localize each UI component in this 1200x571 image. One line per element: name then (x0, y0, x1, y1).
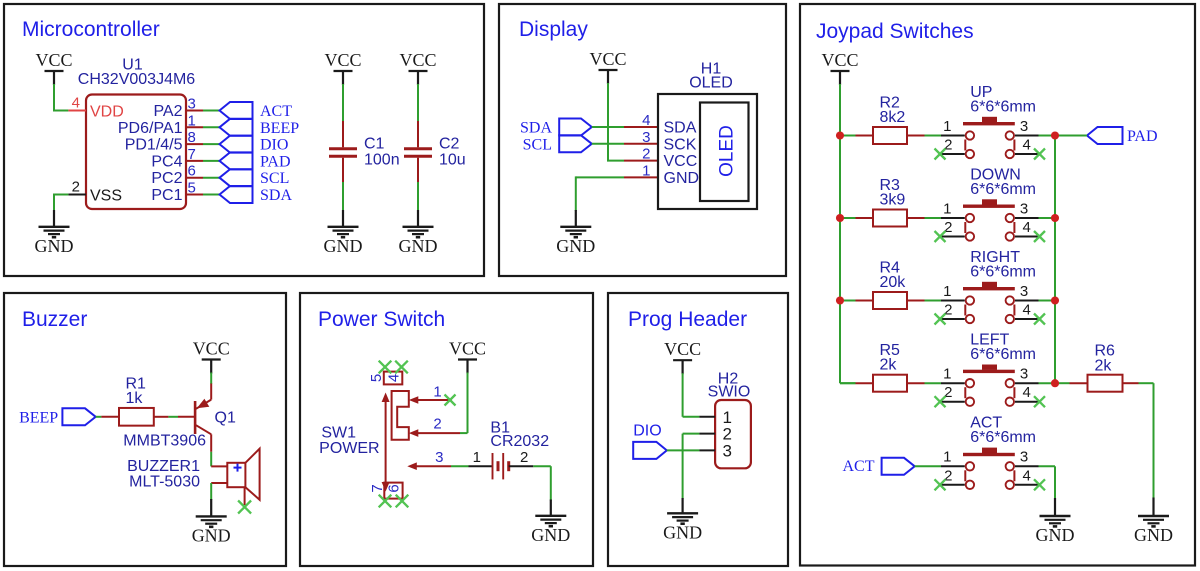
U1 pin name PD6/PA1 (118, 120, 183, 137)
no-connect X LEFT pin 4 (1034, 396, 1045, 407)
switch RIGHT pin 2 stub (941, 318, 965, 320)
svg-text:VCC: VCC (449, 339, 486, 359)
no-connect X RIGHT pin 4 (1034, 314, 1045, 325)
title Power Switch (318, 308, 445, 331)
R4 reference (880, 260, 901, 277)
no-connect X ACT pin 2 (935, 479, 946, 490)
SW1 actuator double arrow (382, 393, 390, 492)
svg-text:PAD: PAD (1127, 128, 1158, 145)
frame Power Switch section (300, 293, 593, 566)
wire Q1 collector to buzzer (210, 452, 212, 467)
switch UP pin number 2 (944, 137, 952, 154)
svg-text:8: 8 (188, 129, 196, 146)
ground GND (C1) (324, 210, 363, 256)
wire to hierarchical label ACT (203, 110, 220, 112)
svg-text:2: 2 (642, 146, 650, 163)
ground GND (buzzer) (192, 499, 231, 546)
svg-text:2: 2 (944, 467, 952, 484)
svg-text:1: 1 (943, 118, 951, 135)
capacitor C2 reference (439, 136, 460, 153)
svg-text:2: 2 (944, 137, 952, 154)
U1 pin name PC1 (151, 187, 182, 204)
svg-text:ACT: ACT (260, 103, 292, 120)
buzzer BUZZER1 MLT-5030 body (227, 449, 259, 505)
svg-text:ACT: ACT (843, 458, 875, 475)
svg-text:VCC: VCC (324, 50, 361, 70)
power symbol VCC (C1) (324, 50, 361, 85)
title Microcontroller (22, 18, 160, 41)
wire bus to R4 (840, 300, 856, 302)
no-connect X DOWN pin 4 (1034, 231, 1045, 242)
svg-text:SCK: SCK (664, 136, 697, 153)
resistor R6 left pin (1070, 382, 1088, 384)
node PAD hierarchical label (1087, 127, 1158, 145)
wire R5 to button LEFT (925, 382, 942, 384)
no-connect X SW1 pin 6 (396, 495, 409, 508)
switch UP pin 2 stub (941, 153, 965, 155)
resistor R1 (119, 408, 154, 426)
node DIO hierarchical label (633, 423, 667, 459)
H1 pin name VCC (664, 153, 698, 170)
svg-text:4: 4 (72, 95, 80, 112)
H1 pin number 2 (642, 146, 650, 163)
switch DOWN pin 1 stub (941, 217, 965, 219)
svg-text:GND: GND (35, 236, 74, 256)
pushbutton RIGHT body (963, 282, 1015, 323)
U1 right pin 8 (PD1/4/5) stub (186, 143, 203, 145)
svg-text:4: 4 (1023, 384, 1031, 401)
node ACT hierarchical label (220, 102, 293, 120)
junction dot at (1055,135.5) (1051, 131, 1059, 139)
R2 value 8k2 (880, 109, 906, 126)
H1 pin 4 stub (624, 126, 658, 128)
switch LEFT pin number 2 (944, 384, 952, 401)
svg-text:4: 4 (1023, 302, 1031, 319)
switch DOWN pin 4 stub (1015, 236, 1039, 238)
junction dot at (1055,218.0) (1051, 214, 1059, 222)
wire right bus to R6 (1055, 382, 1070, 384)
svg-text:2: 2 (520, 449, 528, 466)
resistor R1 left pin (101, 416, 119, 418)
wire SDA to H1 (592, 126, 624, 128)
H2 pin number 3 (723, 441, 732, 460)
svg-text:10u: 10u (439, 152, 466, 169)
svg-text:2: 2 (944, 302, 952, 319)
resistor R2 right pin (907, 135, 925, 137)
svg-text:4: 4 (1023, 137, 1031, 154)
svg-text:4: 4 (642, 112, 650, 129)
wire VCC to U1 VDD (53, 84, 68, 111)
svg-text:VCC: VCC (193, 339, 230, 359)
svg-text:20k: 20k (880, 274, 907, 291)
node DIO hierarchical label (220, 136, 289, 154)
svg-text:PAD: PAD (260, 153, 291, 170)
svg-text:6: 6 (188, 163, 196, 180)
no-connect X SW1 pin 5 (379, 361, 392, 374)
svg-text:Q1: Q1 (215, 410, 236, 427)
capacitor C1 bottom pin (342, 158, 344, 182)
title Buzzer (22, 308, 87, 331)
switch RIGHT pin 3 stub (1015, 300, 1039, 302)
SW1 reference (321, 425, 356, 442)
svg-text:PC4: PC4 (151, 153, 182, 170)
pushbutton DOWN body (963, 199, 1015, 240)
switch LEFT pin 3 stub (1015, 382, 1039, 384)
R5 value 2k (880, 357, 898, 374)
H1 pin 3 stub (624, 143, 658, 145)
svg-text:SDA: SDA (520, 120, 552, 137)
svg-text:3: 3 (435, 449, 443, 466)
wire U1 VSS to GND (53, 195, 68, 212)
ACT value 6*6*6mm (970, 429, 1036, 446)
frame Display section (499, 4, 786, 276)
svg-text:DIO: DIO (633, 423, 661, 440)
R4 value 20k (880, 274, 907, 291)
wire buzzer pin 2 to GND (210, 483, 212, 500)
battery B1 pin 2 stub (509, 465, 534, 467)
switch SW1 body bracket (392, 391, 409, 440)
resistor R1 right pin (154, 416, 169, 418)
U1 pin number 8 (188, 129, 196, 146)
DOWN value 6*6*6mm (970, 181, 1036, 198)
LEFT name label (970, 332, 1009, 349)
ground GND (R6) (1134, 498, 1173, 546)
switch ACT pin 4 stub (1015, 484, 1039, 486)
frame Prog Header section (608, 293, 788, 566)
ground GND (ACT) (1036, 498, 1075, 545)
H1 pin 2 stub (624, 160, 658, 162)
svg-text:2k: 2k (880, 357, 898, 374)
U1 pin name PD1/4/5 (125, 137, 183, 154)
resistor R6 right pin (1123, 382, 1139, 384)
SW1 pin 2 arrow (409, 429, 460, 437)
svg-text:GND: GND (1134, 525, 1173, 545)
power symbol VCC (power switch) (449, 339, 486, 374)
switch ACT pin 3 stub (1015, 465, 1039, 467)
OLED rotated label (717, 125, 738, 177)
switch UP pin 4 stub (1015, 153, 1039, 155)
switch DOWN pin number 2 (944, 219, 952, 236)
U1 pin number 7 (188, 146, 196, 163)
U1 pin number 3 (188, 96, 196, 113)
resistor R3 (873, 210, 907, 227)
svg-text:BUZZER1: BUZZER1 (127, 458, 200, 475)
title Joypad Switches (816, 20, 974, 43)
wire C1 to GND (342, 182, 344, 211)
svg-text:1k: 1k (126, 390, 144, 407)
svg-text:3: 3 (723, 441, 732, 460)
wire button UP to right bus (1039, 135, 1057, 137)
switch UP pin number 4 (1023, 137, 1031, 154)
U1 pin number 6 (188, 163, 196, 180)
wire R4 to button RIGHT (925, 300, 942, 302)
H1 pin number 4 (642, 112, 650, 129)
node SDA hierarchical label (220, 186, 293, 204)
svg-text:2: 2 (72, 179, 80, 196)
wire right bus to PAD (1055, 135, 1087, 137)
svg-text:MMBT3906: MMBT3906 (123, 433, 206, 450)
svg-text:4: 4 (1023, 219, 1031, 236)
wire VCC to C1 (342, 84, 344, 121)
H1 pin number 3 (642, 129, 650, 146)
RIGHT value 6*6*6mm (970, 263, 1036, 280)
B1 value CR2032 (490, 433, 549, 450)
svg-text:PC2: PC2 (151, 170, 182, 187)
svg-text:GND: GND (531, 525, 570, 545)
wire BEEP to R1 (96, 416, 102, 418)
node SCL hierarchical label (523, 135, 592, 153)
wire bus to R2 (840, 135, 856, 137)
pushbutton LEFT body (963, 365, 1015, 406)
battery B1 pin number 1 (473, 449, 481, 466)
U1 pin number 1 (188, 112, 196, 129)
svg-text:2k: 2k (1095, 358, 1113, 375)
svg-text:PC1: PC1 (151, 187, 182, 204)
buzzer BUZZER1 pin 2 stub (211, 482, 227, 484)
wire VCC to H1 pin 2 (607, 160, 624, 162)
wire button RIGHT to right bus (1039, 300, 1057, 302)
Q1 reference (215, 410, 236, 427)
switch RIGHT pin number 3 (1020, 283, 1028, 300)
BUZZER1 reference (127, 458, 200, 475)
svg-text:3: 3 (1020, 366, 1028, 383)
buzzer BUZZER1 pin 1 stub (211, 465, 227, 467)
no-connect X SW1 pin 7 (379, 495, 392, 508)
battery B1 pin 1 stub (469, 465, 493, 467)
SW1 pin number 2 (433, 416, 441, 433)
frame Microcontroller section (4, 4, 484, 276)
U1 pin number 5 (188, 180, 196, 197)
svg-text:GND: GND (663, 523, 702, 543)
switch LEFT pin number 3 (1020, 366, 1028, 383)
H1 pin number 1 (642, 162, 650, 179)
U1 pin 4 number (72, 95, 80, 112)
U1 pin name PC2 (151, 170, 182, 187)
H2 pin 2 stub (699, 433, 715, 435)
svg-text:1: 1 (943, 449, 951, 466)
wire bus to R3 (840, 217, 856, 219)
svg-text:MLT-5030: MLT-5030 (129, 474, 200, 491)
resistor R6 (1088, 375, 1123, 392)
U1 right pin 3 (PA2) stub (186, 110, 203, 112)
no-connect X SW1 pin 4 (395, 361, 408, 374)
battery B1 pin number 2 (520, 449, 528, 466)
svg-text:GND: GND (399, 236, 438, 256)
H2 reference (718, 371, 739, 388)
capacitor C1 value 100n (364, 152, 400, 169)
svg-text:2: 2 (944, 219, 952, 236)
UP value 6*6*6mm (970, 98, 1036, 115)
wire VCC vertical (display) (607, 83, 609, 161)
svg-text:Prog Header: Prog Header (628, 308, 747, 331)
svg-text:6*6*6mm: 6*6*6mm (970, 429, 1036, 446)
switch DOWN pin 2 stub (941, 236, 965, 238)
U1 reference (122, 57, 143, 74)
capacitor C2 plates (404, 149, 432, 156)
resistor R4 right pin (907, 300, 925, 302)
U1 pin name PA2 (153, 103, 182, 120)
svg-text:7: 7 (188, 146, 196, 163)
wire ACT button pin 3 to GND (1039, 466, 1056, 499)
svg-text:VCC: VCC (821, 50, 858, 70)
U1 right pin 1 (PD6/PA1) stub (186, 126, 203, 128)
H2 pin 1 stub (699, 416, 715, 418)
resistor R4 left pin (856, 300, 874, 302)
ACT name label (970, 415, 1002, 432)
H1 pin name SCK (664, 136, 697, 153)
connector H1 OLED outline (658, 94, 757, 209)
wire to hierarchical label SCL (203, 177, 220, 179)
switch LEFT pin 4 stub (1015, 401, 1039, 403)
resistor R5 left pin (856, 382, 874, 384)
H1 reference (701, 61, 722, 78)
UP name label (970, 84, 992, 101)
svg-text:100n: 100n (364, 152, 400, 169)
RIGHT name label (970, 249, 1020, 266)
power symbol VCC (C2) (399, 50, 436, 85)
H2 pin number 2 (723, 425, 732, 444)
no-connect X UP pin 4 (1034, 149, 1045, 160)
svg-text:OLED: OLED (717, 125, 738, 177)
wire VCC to C2 (417, 84, 419, 121)
svg-text:Display: Display (519, 18, 588, 41)
wire to hierarchical label SDA (203, 194, 220, 196)
connector H2 SWIO body (715, 400, 751, 468)
B1 reference (490, 420, 510, 437)
svg-text:1: 1 (473, 449, 481, 466)
svg-text:3k9: 3k9 (880, 192, 906, 209)
wire VCC to Q1 emitter (210, 373, 212, 385)
wire VCC bus down (joypad left) (840, 84, 856, 383)
no-connect X RIGHT pin 2 (935, 314, 946, 325)
R3 value 3k9 (880, 192, 906, 209)
svg-text:SCL: SCL (260, 170, 289, 187)
node SDA hierarchical label (520, 119, 592, 137)
svg-text:GND: GND (192, 526, 231, 546)
R3 reference (880, 177, 901, 194)
switch UP pin number 1 (943, 118, 951, 135)
no-connect X DOWN pin 2 (935, 231, 946, 242)
svg-text:PD1/4/5: PD1/4/5 (125, 137, 183, 154)
wire R3 to button DOWN (925, 217, 942, 219)
pushbutton ACT body (963, 448, 1015, 489)
title Prog Header (628, 308, 747, 331)
svg-text:Buzzer: Buzzer (22, 308, 87, 331)
SW1 pin number 7 (369, 484, 386, 492)
capacitor C2 value 10u (439, 152, 466, 169)
BUZZER1 value MLT-5030 (129, 474, 200, 491)
switch ACT pin 1 stub (941, 465, 965, 467)
R2 reference (880, 95, 901, 112)
U1 pin 4 VDD stub (68, 110, 86, 112)
svg-text:SWIO: SWIO (708, 384, 751, 401)
svg-text:1: 1 (943, 283, 951, 300)
U1 pin name PC4 (151, 153, 182, 170)
svg-text:1: 1 (188, 112, 196, 129)
svg-text:VSS: VSS (90, 188, 122, 205)
H2 value SWIO (708, 384, 751, 401)
svg-text:6*6*6mm: 6*6*6mm (970, 346, 1036, 363)
svg-text:VCC: VCC (35, 50, 72, 70)
svg-text:Joypad Switches: Joypad Switches (816, 20, 974, 43)
switch ACT pin number 4 (1023, 467, 1031, 484)
title Display (519, 18, 588, 41)
SW1 pin 3 arrow (407, 462, 451, 470)
switch ACT pin number 1 (943, 449, 951, 466)
svg-text:3: 3 (642, 129, 650, 146)
pushbutton UP body (963, 117, 1015, 158)
wire right bus (joypad) (1054, 136, 1056, 384)
wire C2 to GND (417, 182, 419, 211)
svg-text:PD6/PA1: PD6/PA1 (118, 120, 183, 137)
capacitor C1 reference (364, 136, 385, 153)
svg-text:Microcontroller: Microcontroller (22, 18, 160, 41)
switch LEFT pin 2 stub (941, 401, 965, 403)
junction dot at (1055,383.2) (1051, 379, 1059, 387)
U1 pin 2 VSS stub (68, 194, 86, 196)
wire battery to GND (533, 466, 551, 500)
resistor R3 right pin (907, 217, 925, 219)
ground GND (prog header) (663, 498, 702, 543)
wire DIO to H2 pin 3 (667, 449, 700, 451)
switch DOWN pin number 1 (943, 200, 951, 217)
U1 pin 2 number (72, 179, 80, 196)
ground GND (microcontroller) (35, 210, 74, 256)
switch DOWN pin number 3 (1020, 200, 1028, 217)
DOWN name label (970, 166, 1021, 183)
R1 reference (126, 376, 147, 393)
ground GND (power switch) (531, 500, 570, 546)
wire VCC to H2 pin 1 (683, 373, 700, 417)
H1 pin 1 stub (624, 176, 658, 178)
svg-text:CR2032: CR2032 (490, 433, 549, 450)
svg-text:4: 4 (386, 374, 403, 382)
switch ACT pin number 3 (1020, 449, 1028, 466)
R1 value 1k (126, 390, 144, 407)
svg-text:6*6*6mm: 6*6*6mm (970, 98, 1036, 115)
svg-text:1: 1 (433, 384, 441, 401)
R5 reference (880, 342, 901, 359)
op-amp U1 body CH32V003J4M6 (86, 95, 186, 210)
SW1 value POWER (319, 440, 379, 457)
wire to hierarchical label PAD (203, 160, 220, 162)
H2 pin number 1 (723, 408, 732, 427)
svg-text:2: 2 (433, 416, 441, 433)
wire button LEFT to right bus (1039, 382, 1057, 384)
svg-text:GND: GND (664, 170, 700, 187)
wire bus to R5 (840, 382, 856, 384)
svg-text:DIO: DIO (260, 137, 288, 154)
svg-text:4: 4 (1023, 467, 1031, 484)
node BEEP hierarchical label (220, 119, 300, 137)
switch RIGHT pin 1 stub (941, 300, 965, 302)
svg-text:BEEP: BEEP (260, 120, 299, 137)
svg-text:6*6*6mm: 6*6*6mm (970, 181, 1036, 198)
no-connect X buzzer bottom pin (238, 501, 251, 514)
junction dot at (840,300.5) (836, 296, 844, 304)
svg-text:3: 3 (188, 96, 196, 113)
SW1 pin number 1 (433, 384, 441, 401)
svg-text:GND: GND (556, 236, 595, 256)
wire SCL to H1 (592, 143, 624, 145)
svg-text:PA2: PA2 (153, 103, 182, 120)
svg-text:C2: C2 (439, 136, 460, 153)
no-connect X ACT pin 4 (1034, 479, 1045, 490)
switch DOWN pin number 4 (1023, 219, 1031, 236)
battery B1 CR2032 (493, 453, 509, 479)
svg-text:VCC: VCC (399, 50, 436, 70)
resistor R2 (873, 127, 907, 144)
